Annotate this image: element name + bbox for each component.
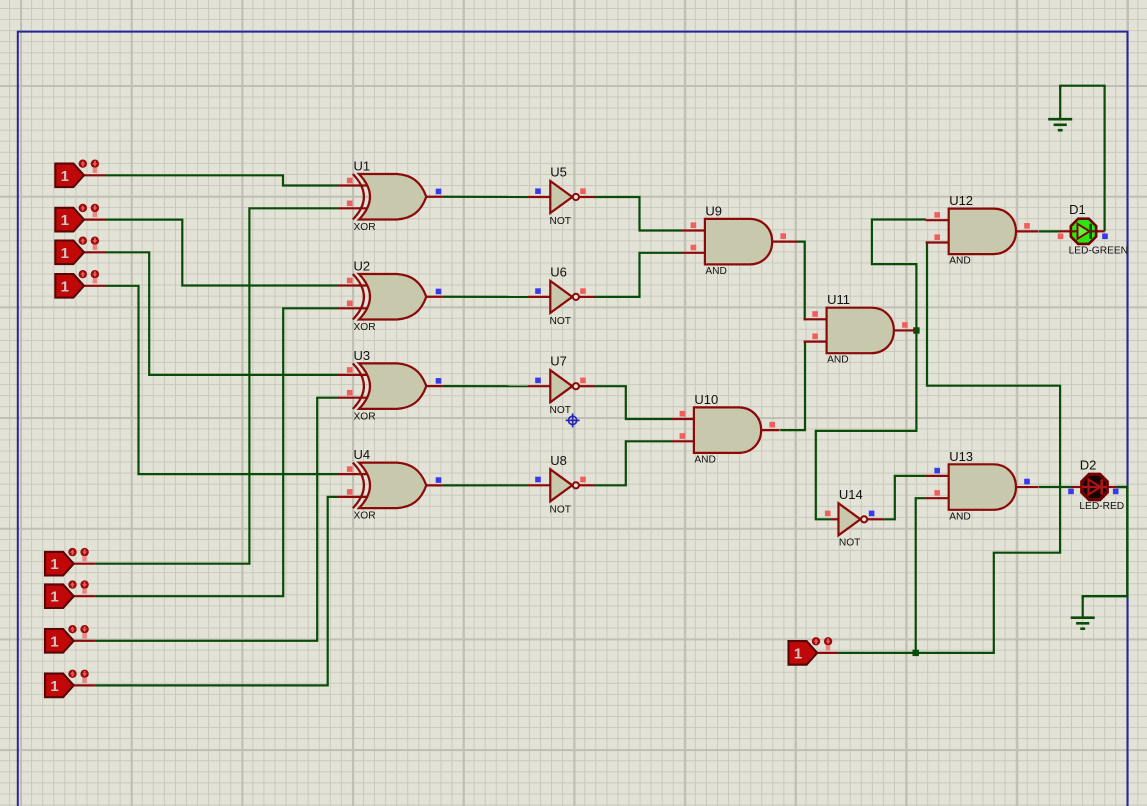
junction node on P9 net (913, 650, 919, 656)
logic state square at U11 output (902, 322, 908, 328)
U6 output pin stub (579, 296, 595, 298)
U3 output pin stub (426, 385, 443, 387)
svg-text:1: 1 (50, 678, 58, 695)
top-right ground symbol (1059, 86, 1061, 120)
wire P7 to U3 input B (96, 398, 338, 641)
logic state square at U13 input B (934, 490, 940, 496)
U6 input pin stub (528, 296, 550, 298)
AND gate U9 body (705, 219, 772, 265)
svg-text:U3: U3 (354, 348, 371, 363)
U1 input A pin stub (338, 184, 367, 186)
wire P1 to U1 input A (106, 175, 339, 185)
junction node at U11 output (913, 327, 919, 333)
U4 input B pin stub (338, 496, 367, 498)
U13 input B pin stub (926, 497, 949, 499)
U14 output pin stub (867, 518, 883, 520)
svg-text:U2: U2 (354, 259, 371, 274)
U10 input B pin stub (671, 440, 694, 442)
NOT gate U7 body (550, 370, 572, 402)
logic state input pin P4 (value 1) (55, 274, 84, 298)
U7 output pin stub (579, 385, 595, 387)
wire P9 node to U13 input B (916, 498, 926, 653)
wire U1 output to U5 input (443, 196, 528, 198)
wire U8 output to U10 input B (595, 441, 672, 485)
wire U13 output to LED D2 anode (1039, 486, 1071, 488)
pin stub of P5 (74, 563, 96, 565)
XOR gate U2 body (359, 274, 426, 320)
LED D2 anode stub (1071, 486, 1083, 488)
pin stub of P4 (84, 285, 106, 287)
svg-text:D1: D1 (1069, 202, 1086, 217)
blue crosshair origin marker (566, 413, 580, 427)
U13 output pin stub (1016, 486, 1039, 488)
NOT gate U5 body (550, 181, 572, 213)
logic state square at U4 output (low) (436, 477, 442, 483)
pin stub of P8 (74, 684, 96, 686)
svg-text:1: 1 (50, 556, 58, 573)
logic state square at U12 output (1024, 223, 1030, 229)
svg-text:NOT: NOT (550, 405, 572, 416)
logic state square at U1 input B (high) (347, 201, 353, 207)
svg-text:D2: D2 (1080, 458, 1097, 473)
U2 input A pin stub (338, 284, 367, 286)
wire U11 output node to U12 input A (872, 220, 926, 331)
toggle buttons of pin P7 (68, 625, 76, 633)
U4 input A pin stub (338, 473, 367, 475)
svg-text:AND: AND (827, 355, 849, 366)
logic state input pin P8 (value 1) (45, 674, 74, 698)
svg-text:AND: AND (694, 454, 716, 465)
logic state square at U3 output (low) (436, 378, 442, 384)
svg-text:1: 1 (61, 168, 69, 185)
svg-text:U13: U13 (949, 449, 973, 464)
logic state square at U1 output (low) (436, 189, 442, 195)
LED D1 (green, lit) (1071, 219, 1096, 244)
wire U7 output to U10 input A (595, 386, 672, 419)
svg-text:NOT: NOT (839, 538, 861, 549)
svg-text:NOT: NOT (550, 504, 572, 515)
U5 input pin stub (528, 196, 550, 198)
logic state square at U6 input (low) (535, 288, 541, 294)
toggle buttons of pin P4 (79, 270, 87, 278)
toggle buttons of pin P3 (79, 237, 87, 245)
NOT gate U8 body (550, 469, 572, 501)
U11 output pin stub (894, 329, 916, 331)
U9 input A pin stub (682, 229, 705, 231)
svg-text:U4: U4 (354, 447, 371, 462)
logic state square at U13 output (1024, 479, 1030, 485)
NOT gate U14 body (839, 503, 861, 535)
toggle buttons of pin P2 (79, 204, 87, 212)
svg-text:XOR: XOR (354, 511, 376, 522)
logic state square at U2 input A (high) (347, 278, 353, 284)
U9 input B pin stub (682, 252, 705, 254)
pin stub of P3 (84, 251, 106, 253)
logic state square at U4 input A (high) (347, 466, 353, 472)
U12 input B pin stub (926, 241, 949, 243)
svg-text:U1: U1 (354, 159, 371, 174)
logic state square at U5 input (low) (535, 188, 541, 194)
U1 output pin stub (426, 196, 443, 198)
AND gate U12 body (949, 209, 1016, 255)
wire U11 output node to U14 input (816, 331, 917, 520)
XOR gate U1 body (359, 174, 426, 220)
pin stub of P9 (817, 652, 838, 654)
NOT gate U6 body (550, 281, 572, 313)
wire U10 output to U11 input B (780, 342, 805, 431)
logic state square at U11 input A (812, 311, 818, 317)
XOR gate U4 body (359, 463, 426, 509)
U8 input pin stub (528, 484, 550, 486)
AND gate U13 body (949, 464, 1016, 510)
svg-text:1: 1 (61, 278, 69, 295)
wire P3 to U3 input A (106, 252, 339, 375)
U12 output pin stub (1016, 230, 1038, 232)
logic state input pin P6 (value 1) (45, 584, 74, 608)
logic state input pin P7 (value 1) (45, 629, 74, 653)
logic state square at U1 input A (high) (347, 178, 353, 184)
svg-text:AND: AND (705, 266, 727, 277)
U1 input B pin stub (338, 207, 367, 209)
U11 input B pin stub (804, 341, 827, 343)
U10 output pin stub (761, 429, 779, 431)
logic state square at U10 input A (680, 411, 686, 417)
wire U2 output to U6 input (443, 296, 528, 298)
U3 input B pin stub (338, 397, 367, 399)
pin stub of P6 (74, 595, 96, 597)
U13 input A pin stub (926, 475, 949, 477)
logic state square at U13 input A (934, 468, 940, 474)
logic state square at U9 input A (691, 222, 697, 228)
logic state input pin P3 (value 1) (55, 241, 84, 265)
AND gate U10 body (694, 407, 761, 453)
logic state square at U6 output (high) (580, 288, 586, 294)
U2 output pin stub (426, 296, 443, 298)
U9 output pin stub (772, 241, 797, 243)
XOR gate U3 body (359, 363, 426, 409)
svg-text:NOT: NOT (550, 316, 572, 327)
pin stub of P1 (84, 174, 106, 176)
logic state square at U10 input B (680, 433, 686, 439)
toggle buttons of pin P9 (812, 637, 820, 645)
toggle buttons of pin P6 (68, 580, 76, 588)
svg-text:XOR: XOR (354, 222, 376, 233)
logic state square at D2 cathode (low) (1113, 489, 1119, 495)
logic state square at U12 input A (934, 212, 940, 218)
svg-text:1: 1 (794, 645, 802, 662)
svg-text:AND: AND (949, 256, 971, 267)
logic state square at U9 input B (691, 245, 697, 251)
svg-text:U5: U5 (550, 165, 567, 180)
svg-text:AND: AND (949, 511, 971, 522)
logic state square at U3 input B (high) (347, 390, 353, 396)
wire LED D2 cathode to bottom ground (1083, 487, 1128, 599)
logic state square at U14 input (high) (825, 511, 831, 517)
svg-text:XOR: XOR (354, 411, 376, 422)
logic state square at D1 anode (high) (1058, 234, 1064, 240)
logic state input pin P1 (value 1) (55, 164, 84, 188)
bottom-right ground symbol (1082, 596, 1084, 618)
wire U5 output to U9 input A (595, 197, 683, 231)
logic state input pin P9 (value 1) (789, 641, 818, 665)
svg-text:U14: U14 (839, 487, 863, 502)
pin stub of P7 (74, 640, 96, 642)
svg-text:U9: U9 (705, 203, 722, 218)
svg-text:XOR: XOR (354, 322, 376, 333)
LED D1 cathode stub (1096, 230, 1105, 232)
logic state square at U5 output (high) (580, 188, 586, 194)
LED D1 anode stub (1060, 230, 1072, 232)
logic state square at U12 input B (934, 234, 940, 240)
pin stub of P2 (84, 219, 106, 221)
wire U14 output to U13 input A (883, 476, 926, 519)
wire LED D1 cathode to top ground (1060, 86, 1104, 232)
LED D2 (red, off) (1082, 474, 1107, 499)
logic state input pin P2 (value 1) (55, 208, 84, 232)
svg-text:LED-RED: LED-RED (1079, 501, 1124, 512)
svg-text:LED-GREEN: LED-GREEN (1069, 245, 1128, 256)
U7 input pin stub (528, 385, 550, 387)
logic state square at U10 output (769, 422, 775, 428)
wire P6 to U2 input B (96, 308, 338, 596)
U2 input B pin stub (338, 307, 367, 309)
logic state square at U11 input B (812, 334, 818, 340)
LED D2 cathode stub (1107, 486, 1117, 488)
wire U3 output to U7 input (443, 385, 528, 387)
logic state square at U2 input B (high) (347, 301, 353, 307)
logic state square at U3 input A (high) (347, 367, 353, 373)
logic state square at U7 input (low) (535, 378, 541, 384)
svg-text:1: 1 (50, 589, 58, 606)
svg-text:NOT: NOT (550, 216, 572, 227)
logic state square at U7 output (high) (580, 378, 586, 384)
wire P9 to U12 input B (838, 243, 1060, 653)
logic state square at U2 output (low) (436, 289, 442, 295)
wire U12 output to LED D1 anode (1039, 230, 1061, 232)
AND gate U11 body (827, 308, 894, 354)
wire U6 output to U9 input B (595, 253, 683, 297)
svg-text:U6: U6 (550, 264, 567, 279)
U4 output pin stub (426, 484, 443, 486)
logic state square at U14 output (low) (869, 511, 875, 517)
wire P5 to U1 input B (96, 208, 338, 563)
U14 input pin stub (831, 518, 839, 520)
wire P4 to U4 input A (106, 286, 339, 474)
logic state square at U9 output (780, 233, 786, 239)
toggle buttons of pin P5 (68, 548, 76, 556)
logic state square at U8 input (low) (535, 477, 541, 483)
toggle buttons of pin P8 (68, 670, 76, 678)
logic state square at U4 input B (high) (347, 489, 353, 495)
wire P8 to U4 input B (96, 497, 338, 686)
U10 input A pin stub (671, 418, 694, 420)
logic state square at D1 cathode (low) (1102, 234, 1108, 240)
logic state input pin P5 (value 1) (45, 552, 74, 576)
wire U9 output to U11 input A (797, 242, 806, 320)
svg-text:U11: U11 (827, 292, 850, 307)
svg-text:U10: U10 (694, 392, 718, 407)
svg-text:U12: U12 (949, 193, 973, 208)
svg-text:1: 1 (61, 212, 69, 229)
logic state square at U8 output (high) (580, 477, 586, 483)
svg-text:1: 1 (61, 245, 69, 262)
logic state square at D2 anode (low) (1068, 489, 1074, 495)
U5 output pin stub (579, 196, 595, 198)
wire U4 output to U8 input (443, 484, 528, 486)
wire P2 to U2 input A (106, 220, 339, 286)
U8 output pin stub (579, 484, 595, 486)
svg-text:U7: U7 (550, 354, 567, 369)
toggle buttons of pin P1 (79, 160, 87, 168)
svg-text:1: 1 (50, 633, 58, 650)
U12 input A pin stub (926, 219, 949, 221)
U11 input A pin stub (804, 318, 827, 320)
U3 input A pin stub (338, 374, 367, 376)
svg-text:U8: U8 (550, 453, 567, 468)
